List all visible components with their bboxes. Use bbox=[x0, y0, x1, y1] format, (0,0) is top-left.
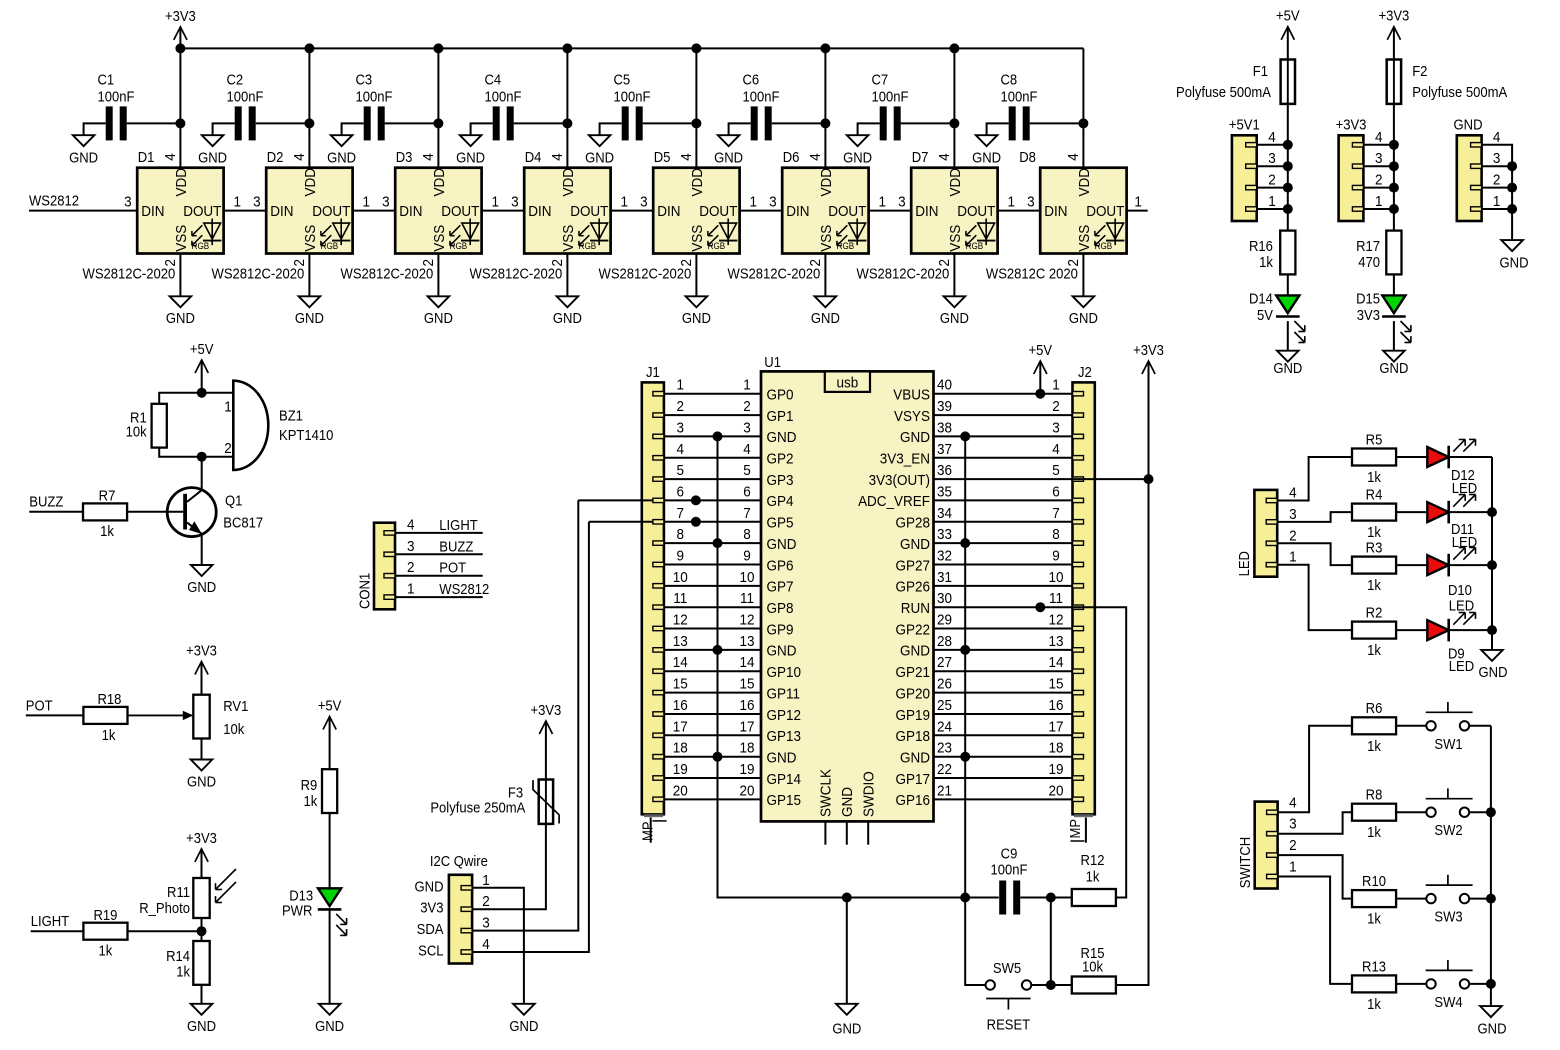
svg-text:D15: D15 bbox=[1356, 291, 1380, 307]
svg-text:J2: J2 bbox=[1078, 364, 1092, 380]
svg-text:470: 470 bbox=[1358, 254, 1380, 270]
svg-text:Q1: Q1 bbox=[225, 493, 242, 509]
svg-text:1: 1 bbox=[363, 194, 371, 211]
svg-text:GND: GND bbox=[198, 150, 227, 166]
svg-text:DIN: DIN bbox=[657, 204, 680, 221]
svg-text:F3: F3 bbox=[508, 785, 524, 801]
svg-text:R4: R4 bbox=[1366, 487, 1383, 503]
svg-text:3: 3 bbox=[743, 420, 751, 437]
svg-text:VSS: VSS bbox=[302, 225, 319, 252]
svg-text:37: 37 bbox=[937, 441, 952, 458]
svg-text:GND: GND bbox=[315, 1018, 344, 1034]
svg-text:6: 6 bbox=[1052, 484, 1060, 501]
svg-text:26: 26 bbox=[937, 676, 952, 693]
svg-text:1: 1 bbox=[1289, 549, 1297, 566]
svg-text:12: 12 bbox=[1048, 612, 1063, 629]
svg-text:4: 4 bbox=[936, 153, 953, 161]
svg-text:GP28: GP28 bbox=[896, 515, 931, 532]
svg-text:11: 11 bbox=[740, 591, 754, 608]
svg-text:18: 18 bbox=[739, 740, 754, 757]
svg-text:1k: 1k bbox=[1367, 996, 1381, 1012]
svg-text:1: 1 bbox=[482, 872, 490, 889]
svg-text:7: 7 bbox=[743, 505, 751, 522]
svg-text:WS2812C-2020: WS2812C-2020 bbox=[212, 266, 305, 282]
svg-text:1k: 1k bbox=[1367, 524, 1381, 540]
svg-text:4: 4 bbox=[482, 936, 490, 953]
svg-text:GND: GND bbox=[1500, 255, 1529, 271]
svg-text:GP6: GP6 bbox=[767, 558, 794, 575]
svg-text:GND: GND bbox=[1479, 664, 1508, 680]
svg-text:D6: D6 bbox=[783, 149, 800, 165]
svg-text:GP2: GP2 bbox=[767, 451, 794, 468]
svg-text:C2: C2 bbox=[227, 72, 244, 88]
svg-text:VBUS: VBUS bbox=[893, 387, 930, 404]
svg-text:Polyfuse 250mA: Polyfuse 250mA bbox=[430, 800, 526, 816]
svg-text:5: 5 bbox=[743, 462, 751, 479]
svg-text:ADC_VREF: ADC_VREF bbox=[858, 494, 930, 511]
svg-text:GND: GND bbox=[415, 879, 444, 895]
svg-text:VDD: VDD bbox=[302, 168, 319, 196]
svg-text:GND: GND bbox=[187, 1018, 216, 1034]
svg-text:3: 3 bbox=[1027, 194, 1035, 211]
svg-text:3: 3 bbox=[1289, 816, 1297, 833]
svg-text:GP5: GP5 bbox=[767, 515, 794, 532]
svg-text:RGB: RGB bbox=[192, 241, 210, 252]
svg-text:15: 15 bbox=[673, 676, 688, 693]
svg-text:WS2812C-2020: WS2812C-2020 bbox=[728, 266, 821, 282]
svg-text:C5: C5 bbox=[614, 72, 631, 88]
svg-text:GP4: GP4 bbox=[767, 494, 794, 511]
svg-text:GND: GND bbox=[900, 643, 930, 660]
svg-text:17: 17 bbox=[739, 719, 754, 736]
svg-text:GP14: GP14 bbox=[767, 771, 802, 788]
svg-text:7: 7 bbox=[1052, 505, 1060, 522]
svg-text:4: 4 bbox=[1289, 485, 1297, 502]
svg-text:10k: 10k bbox=[126, 424, 147, 440]
svg-text:WS2812C-2020: WS2812C-2020 bbox=[599, 266, 692, 282]
svg-text:SDA: SDA bbox=[417, 921, 445, 937]
svg-text:GP27: GP27 bbox=[896, 558, 931, 575]
svg-text:2: 2 bbox=[407, 560, 415, 577]
svg-text:33: 33 bbox=[937, 526, 952, 543]
svg-text:100nF: 100nF bbox=[98, 89, 135, 105]
svg-text:1: 1 bbox=[234, 194, 242, 211]
svg-text:3: 3 bbox=[1289, 506, 1297, 523]
svg-text:GND: GND bbox=[767, 750, 797, 767]
svg-text:27: 27 bbox=[937, 655, 952, 672]
svg-text:4: 4 bbox=[1268, 129, 1276, 146]
svg-text:VDD: VDD bbox=[947, 168, 964, 196]
svg-text:DOUT: DOUT bbox=[441, 204, 479, 221]
svg-text:1k: 1k bbox=[100, 523, 114, 539]
svg-text:GND: GND bbox=[509, 1018, 538, 1034]
svg-text:3V3: 3V3 bbox=[420, 900, 444, 916]
svg-text:RGB: RGB bbox=[966, 241, 984, 252]
svg-text:SW3: SW3 bbox=[1434, 909, 1463, 925]
svg-text:1k: 1k bbox=[1086, 869, 1100, 885]
svg-text:C6: C6 bbox=[743, 72, 760, 88]
svg-text:C8: C8 bbox=[1001, 72, 1018, 88]
svg-text:18: 18 bbox=[673, 740, 688, 757]
svg-text:DOUT: DOUT bbox=[183, 204, 221, 221]
svg-text:14: 14 bbox=[739, 655, 754, 672]
svg-text:+3V3: +3V3 bbox=[1336, 117, 1367, 133]
svg-text:3V3_EN: 3V3_EN bbox=[880, 451, 930, 468]
svg-text:RESET: RESET bbox=[987, 1017, 1031, 1033]
svg-text:2: 2 bbox=[743, 398, 751, 415]
svg-text:GND: GND bbox=[900, 750, 930, 767]
svg-text:GND: GND bbox=[553, 310, 582, 326]
svg-text:GND: GND bbox=[900, 430, 930, 447]
svg-text:28: 28 bbox=[937, 633, 952, 650]
svg-text:GP21: GP21 bbox=[896, 664, 931, 681]
svg-text:3: 3 bbox=[1268, 151, 1276, 168]
svg-text:VSS: VSS bbox=[173, 225, 190, 252]
svg-text:4: 4 bbox=[1493, 129, 1501, 146]
svg-text:3: 3 bbox=[898, 194, 906, 211]
svg-text:+5V: +5V bbox=[318, 698, 342, 714]
svg-text:10: 10 bbox=[1048, 569, 1063, 586]
svg-text:1k: 1k bbox=[1367, 825, 1381, 841]
svg-text:+3V3: +3V3 bbox=[1133, 342, 1164, 358]
svg-text:VSS: VSS bbox=[689, 225, 706, 252]
svg-text:3: 3 bbox=[407, 538, 415, 555]
svg-text:1: 1 bbox=[1375, 193, 1383, 210]
svg-text:+3V3: +3V3 bbox=[186, 643, 217, 659]
svg-text:GND: GND bbox=[832, 1021, 861, 1037]
svg-text:2: 2 bbox=[677, 398, 685, 415]
svg-text:BUZZ: BUZZ bbox=[439, 539, 473, 555]
svg-text:GP0: GP0 bbox=[767, 387, 794, 404]
svg-text:+5V: +5V bbox=[1276, 8, 1300, 24]
svg-text:+3V3: +3V3 bbox=[165, 8, 196, 24]
svg-text:36: 36 bbox=[937, 462, 952, 479]
svg-text:15: 15 bbox=[1048, 676, 1063, 693]
svg-text:GP3: GP3 bbox=[767, 472, 794, 489]
svg-text:GND: GND bbox=[839, 787, 856, 817]
svg-text:+5V: +5V bbox=[190, 341, 214, 357]
svg-text:R12: R12 bbox=[1081, 853, 1105, 869]
svg-text:4: 4 bbox=[291, 153, 308, 161]
svg-text:RUN: RUN bbox=[901, 600, 930, 617]
svg-text:BUZZ: BUZZ bbox=[29, 494, 63, 510]
svg-text:LED: LED bbox=[1449, 659, 1474, 675]
svg-text:4: 4 bbox=[1065, 153, 1082, 161]
svg-text:4: 4 bbox=[420, 153, 437, 161]
svg-text:3: 3 bbox=[1375, 151, 1383, 168]
svg-text:3: 3 bbox=[511, 194, 519, 211]
svg-text:1: 1 bbox=[1052, 377, 1060, 394]
svg-text:3: 3 bbox=[1052, 420, 1060, 437]
svg-text:D3: D3 bbox=[396, 149, 413, 165]
svg-text:VDD: VDD bbox=[431, 168, 448, 196]
svg-text:R13: R13 bbox=[1362, 959, 1386, 975]
svg-text:R5: R5 bbox=[1366, 432, 1383, 448]
svg-text:LED: LED bbox=[1449, 598, 1474, 614]
svg-text:GP7: GP7 bbox=[767, 579, 794, 596]
svg-text:GP17: GP17 bbox=[896, 771, 931, 788]
svg-text:1k: 1k bbox=[1367, 642, 1381, 658]
svg-text:100nF: 100nF bbox=[614, 89, 651, 105]
svg-text:WS2812: WS2812 bbox=[439, 581, 489, 597]
svg-text:+3V3: +3V3 bbox=[1378, 8, 1409, 24]
svg-text:I2C Qwire: I2C Qwire bbox=[430, 853, 488, 869]
svg-text:2: 2 bbox=[1289, 837, 1297, 854]
svg-text:4: 4 bbox=[1375, 129, 1383, 146]
svg-text:GND: GND bbox=[767, 430, 797, 447]
svg-text:6: 6 bbox=[677, 484, 685, 501]
svg-text:1: 1 bbox=[224, 399, 232, 416]
svg-text:100nF: 100nF bbox=[872, 89, 909, 105]
svg-text:GND: GND bbox=[1454, 117, 1483, 133]
svg-text:C7: C7 bbox=[872, 72, 889, 88]
svg-text:GND: GND bbox=[456, 150, 485, 166]
svg-text:1k: 1k bbox=[1259, 254, 1273, 270]
svg-text:+3V3: +3V3 bbox=[530, 702, 561, 718]
svg-text:GND: GND bbox=[682, 310, 711, 326]
svg-text:1: 1 bbox=[879, 194, 887, 211]
svg-text:34: 34 bbox=[937, 505, 952, 522]
svg-text:1k: 1k bbox=[176, 964, 190, 980]
svg-text:RGB: RGB bbox=[1095, 241, 1113, 252]
svg-text:17: 17 bbox=[673, 719, 688, 736]
svg-text:R7: R7 bbox=[99, 488, 116, 504]
svg-text:Polyfuse 500mA: Polyfuse 500mA bbox=[1412, 85, 1508, 101]
svg-text:VSS: VSS bbox=[560, 225, 577, 252]
svg-text:1k: 1k bbox=[99, 943, 113, 959]
svg-text:20: 20 bbox=[673, 783, 688, 800]
svg-text:4: 4 bbox=[407, 517, 415, 534]
svg-text:17: 17 bbox=[1048, 719, 1063, 736]
svg-text:MP: MP bbox=[1068, 819, 1084, 839]
svg-text:2: 2 bbox=[1493, 172, 1501, 189]
svg-text:LED: LED bbox=[1237, 551, 1253, 576]
svg-text:3: 3 bbox=[482, 915, 490, 932]
svg-text:21: 21 bbox=[937, 783, 952, 800]
svg-text:WS2812C-2020: WS2812C-2020 bbox=[857, 266, 950, 282]
svg-text:100nF: 100nF bbox=[485, 89, 522, 105]
svg-text:GND: GND bbox=[166, 310, 195, 326]
svg-text:GND: GND bbox=[714, 150, 743, 166]
svg-text:RGB: RGB bbox=[321, 241, 339, 252]
svg-text:C9: C9 bbox=[1001, 846, 1018, 862]
svg-text:2: 2 bbox=[482, 894, 490, 911]
svg-text:1k: 1k bbox=[1367, 577, 1381, 593]
svg-text:8: 8 bbox=[743, 526, 751, 543]
svg-text:DOUT: DOUT bbox=[699, 204, 737, 221]
svg-text:3: 3 bbox=[769, 194, 777, 211]
svg-text:LIGHT: LIGHT bbox=[439, 517, 478, 533]
svg-text:12: 12 bbox=[673, 612, 688, 629]
svg-text:DOUT: DOUT bbox=[957, 204, 995, 221]
svg-text:10: 10 bbox=[673, 569, 688, 586]
svg-text:32: 32 bbox=[937, 548, 952, 565]
svg-text:GP18: GP18 bbox=[896, 728, 931, 745]
svg-text:GND: GND bbox=[69, 150, 98, 166]
svg-text:WS2812: WS2812 bbox=[29, 193, 79, 209]
svg-text:1: 1 bbox=[621, 194, 629, 211]
svg-text:1k: 1k bbox=[102, 727, 116, 743]
svg-text:SW2: SW2 bbox=[1434, 823, 1462, 839]
svg-text:1k: 1k bbox=[304, 793, 318, 809]
svg-text:14: 14 bbox=[673, 655, 688, 672]
svg-text:10k: 10k bbox=[1082, 959, 1103, 975]
svg-text:GP1: GP1 bbox=[767, 408, 794, 425]
svg-text:19: 19 bbox=[673, 761, 688, 778]
svg-text:13: 13 bbox=[1048, 633, 1063, 650]
svg-text:WS2812C-2020: WS2812C-2020 bbox=[341, 266, 434, 282]
svg-text:DIN: DIN bbox=[528, 204, 551, 221]
svg-text:19: 19 bbox=[1048, 761, 1063, 778]
svg-text:39: 39 bbox=[937, 398, 952, 415]
svg-text:8: 8 bbox=[677, 526, 685, 543]
svg-text:POT: POT bbox=[26, 698, 53, 714]
svg-text:2: 2 bbox=[1268, 172, 1276, 189]
svg-text:4: 4 bbox=[1052, 441, 1060, 458]
svg-text:GND: GND bbox=[843, 150, 872, 166]
svg-text:GND: GND bbox=[187, 580, 216, 596]
svg-text:12: 12 bbox=[739, 612, 754, 629]
svg-text:100nF: 100nF bbox=[227, 89, 264, 105]
svg-text:R8: R8 bbox=[1366, 787, 1383, 803]
svg-text:2: 2 bbox=[1289, 528, 1297, 545]
svg-text:DOUT: DOUT bbox=[1086, 204, 1124, 221]
svg-text:F2: F2 bbox=[1412, 63, 1427, 79]
svg-text:D14: D14 bbox=[1249, 291, 1273, 307]
svg-text:GND: GND bbox=[327, 150, 356, 166]
svg-text:GP26: GP26 bbox=[896, 579, 931, 596]
svg-text:1k: 1k bbox=[1367, 738, 1381, 754]
svg-text:2: 2 bbox=[224, 440, 232, 457]
svg-text:SCL: SCL bbox=[418, 943, 444, 959]
svg-text:1: 1 bbox=[1493, 193, 1501, 210]
svg-text:15: 15 bbox=[739, 676, 754, 693]
svg-text:SWCLK: SWCLK bbox=[818, 769, 835, 817]
svg-text:POT: POT bbox=[439, 560, 466, 576]
svg-text:BZ1: BZ1 bbox=[279, 408, 303, 424]
svg-text:U1: U1 bbox=[764, 354, 781, 370]
svg-text:14: 14 bbox=[1048, 655, 1063, 672]
svg-text:D5: D5 bbox=[654, 149, 671, 165]
svg-text:J1: J1 bbox=[646, 364, 660, 380]
svg-text:VDD: VDD bbox=[173, 168, 190, 196]
svg-text:10: 10 bbox=[739, 569, 754, 586]
svg-text:LED: LED bbox=[1452, 480, 1477, 496]
svg-text:2: 2 bbox=[1052, 398, 1060, 415]
svg-text:3: 3 bbox=[253, 194, 261, 211]
svg-text:SWITCH: SWITCH bbox=[1237, 837, 1253, 888]
svg-text:1: 1 bbox=[750, 194, 758, 211]
svg-text:3V3(OUT): 3V3(OUT) bbox=[869, 472, 930, 489]
svg-text:3: 3 bbox=[382, 194, 390, 211]
svg-text:F1: F1 bbox=[1253, 63, 1268, 79]
svg-text:VDD: VDD bbox=[818, 168, 835, 196]
svg-text:RGB: RGB bbox=[708, 241, 726, 252]
svg-text:23: 23 bbox=[937, 740, 952, 757]
svg-text:R_Photo: R_Photo bbox=[139, 901, 190, 917]
svg-text:4: 4 bbox=[1289, 795, 1297, 812]
svg-text:WS2812C 2020: WS2812C 2020 bbox=[986, 266, 1078, 282]
svg-text:DIN: DIN bbox=[399, 204, 422, 221]
svg-text:4: 4 bbox=[807, 153, 824, 161]
svg-text:+3V3: +3V3 bbox=[186, 830, 217, 846]
svg-text:C3: C3 bbox=[356, 72, 373, 88]
svg-text:D2: D2 bbox=[267, 149, 284, 165]
svg-text:9: 9 bbox=[743, 548, 751, 565]
svg-text:GND: GND bbox=[585, 150, 614, 166]
svg-text:GP12: GP12 bbox=[767, 707, 802, 724]
svg-text:GP20: GP20 bbox=[896, 686, 931, 703]
svg-text:SW4: SW4 bbox=[1434, 994, 1463, 1010]
svg-text:RGB: RGB bbox=[450, 241, 468, 252]
svg-text:8: 8 bbox=[1052, 526, 1060, 543]
svg-text:GND: GND bbox=[295, 310, 324, 326]
svg-text:3V3: 3V3 bbox=[1357, 307, 1381, 323]
svg-text:DOUT: DOUT bbox=[828, 204, 866, 221]
svg-text:+5V: +5V bbox=[1029, 342, 1053, 358]
svg-text:D13: D13 bbox=[289, 888, 313, 904]
svg-text:100nF: 100nF bbox=[991, 862, 1028, 878]
svg-text:SW5: SW5 bbox=[993, 960, 1022, 976]
svg-text:WS2812C-2020: WS2812C-2020 bbox=[470, 266, 563, 282]
svg-text:5: 5 bbox=[677, 462, 685, 479]
svg-text:30: 30 bbox=[937, 591, 952, 608]
svg-text:1: 1 bbox=[677, 377, 685, 394]
svg-text:GND: GND bbox=[972, 150, 1001, 166]
svg-text:VSS: VSS bbox=[431, 225, 448, 252]
svg-text:100nF: 100nF bbox=[356, 89, 393, 105]
svg-text:DIN: DIN bbox=[786, 204, 809, 221]
svg-text:RV1: RV1 bbox=[223, 698, 248, 714]
svg-text:GND: GND bbox=[424, 310, 453, 326]
svg-text:DIN: DIN bbox=[1044, 204, 1067, 221]
svg-text:22: 22 bbox=[937, 761, 952, 778]
svg-text:SWDIO: SWDIO bbox=[861, 771, 878, 817]
svg-text:D1: D1 bbox=[138, 149, 155, 165]
svg-text:GND: GND bbox=[900, 536, 930, 553]
svg-text:GP10: GP10 bbox=[767, 664, 802, 681]
svg-text:16: 16 bbox=[1048, 697, 1063, 714]
svg-text:13: 13 bbox=[739, 633, 754, 650]
svg-text:GP9: GP9 bbox=[767, 622, 794, 639]
svg-text:1: 1 bbox=[743, 377, 751, 394]
svg-text:1: 1 bbox=[1289, 859, 1297, 876]
svg-text:GP11: GP11 bbox=[767, 686, 801, 703]
svg-text:4: 4 bbox=[678, 153, 695, 161]
svg-text:GND: GND bbox=[1069, 310, 1098, 326]
svg-text:1k: 1k bbox=[1367, 469, 1381, 485]
svg-text:D4: D4 bbox=[525, 149, 542, 165]
svg-text:9: 9 bbox=[1052, 548, 1060, 565]
svg-text:1: 1 bbox=[492, 194, 500, 211]
svg-text:11: 11 bbox=[673, 591, 687, 608]
svg-text:DIN: DIN bbox=[141, 204, 164, 221]
svg-text:R16: R16 bbox=[1249, 238, 1273, 254]
svg-text:7: 7 bbox=[677, 505, 685, 522]
svg-text:100nF: 100nF bbox=[743, 89, 780, 105]
svg-text:5V: 5V bbox=[1257, 307, 1274, 323]
svg-text:VSS: VSS bbox=[818, 225, 835, 252]
svg-text:4: 4 bbox=[743, 441, 751, 458]
svg-text:10k: 10k bbox=[223, 721, 244, 737]
svg-text:31: 31 bbox=[937, 569, 952, 586]
svg-text:GP13: GP13 bbox=[767, 728, 802, 745]
svg-text:13: 13 bbox=[673, 633, 688, 650]
svg-text:2: 2 bbox=[1375, 172, 1383, 189]
svg-text:LIGHT: LIGHT bbox=[31, 914, 70, 930]
svg-text:6: 6 bbox=[743, 484, 751, 501]
svg-text:20: 20 bbox=[1048, 783, 1063, 800]
